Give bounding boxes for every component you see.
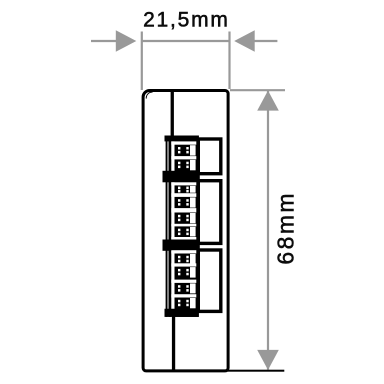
- arrowhead up: [257, 91, 279, 111]
- terminal group frame B: [198, 181, 221, 244]
- arrow tail right: [254, 40, 278, 42]
- group separator blob B: [163, 240, 200, 251]
- terminal top bar: [165, 136, 199, 142]
- extension line bottom (black): [222, 370, 284, 372]
- arrowhead down: [257, 350, 279, 370]
- extension line top: [230, 89, 285, 91]
- top-left corner seam: [146, 92, 152, 98]
- module faces: screw dots and square windows: [178, 145, 196, 308]
- housing divider line bottom segment: [172, 315, 175, 371]
- terminal rail line 2: [169, 136, 172, 317]
- terminal bottom bar: [165, 309, 199, 317]
- dimension line: [142, 40, 230, 42]
- terminal group frame C: [198, 250, 221, 311]
- arrowhead left: [116, 30, 137, 51]
- arrow tail left: [91, 40, 117, 42]
- dimension line vertical: [267, 91, 269, 370]
- svg-text:68mm: 68mm: [273, 191, 299, 265]
- terminal rail line 1: [166, 136, 168, 317]
- module separator slots: [171, 141, 196, 297]
- svg-text:21,5mm: 21,5mm: [143, 8, 230, 31]
- terminal clamp column: [175, 136, 199, 317]
- extension line right: [228, 32, 230, 90]
- arrowhead right: [234, 30, 255, 51]
- device housing outline: [143, 91, 228, 371]
- housing divider line top segment: [171, 91, 174, 136]
- extension line left: [141, 32, 143, 91]
- width dimension: [91, 32, 277, 91]
- group separator blob A: [163, 171, 200, 183]
- height dimension: [230, 90, 285, 369]
- terminal group frame A: [198, 139, 221, 174]
